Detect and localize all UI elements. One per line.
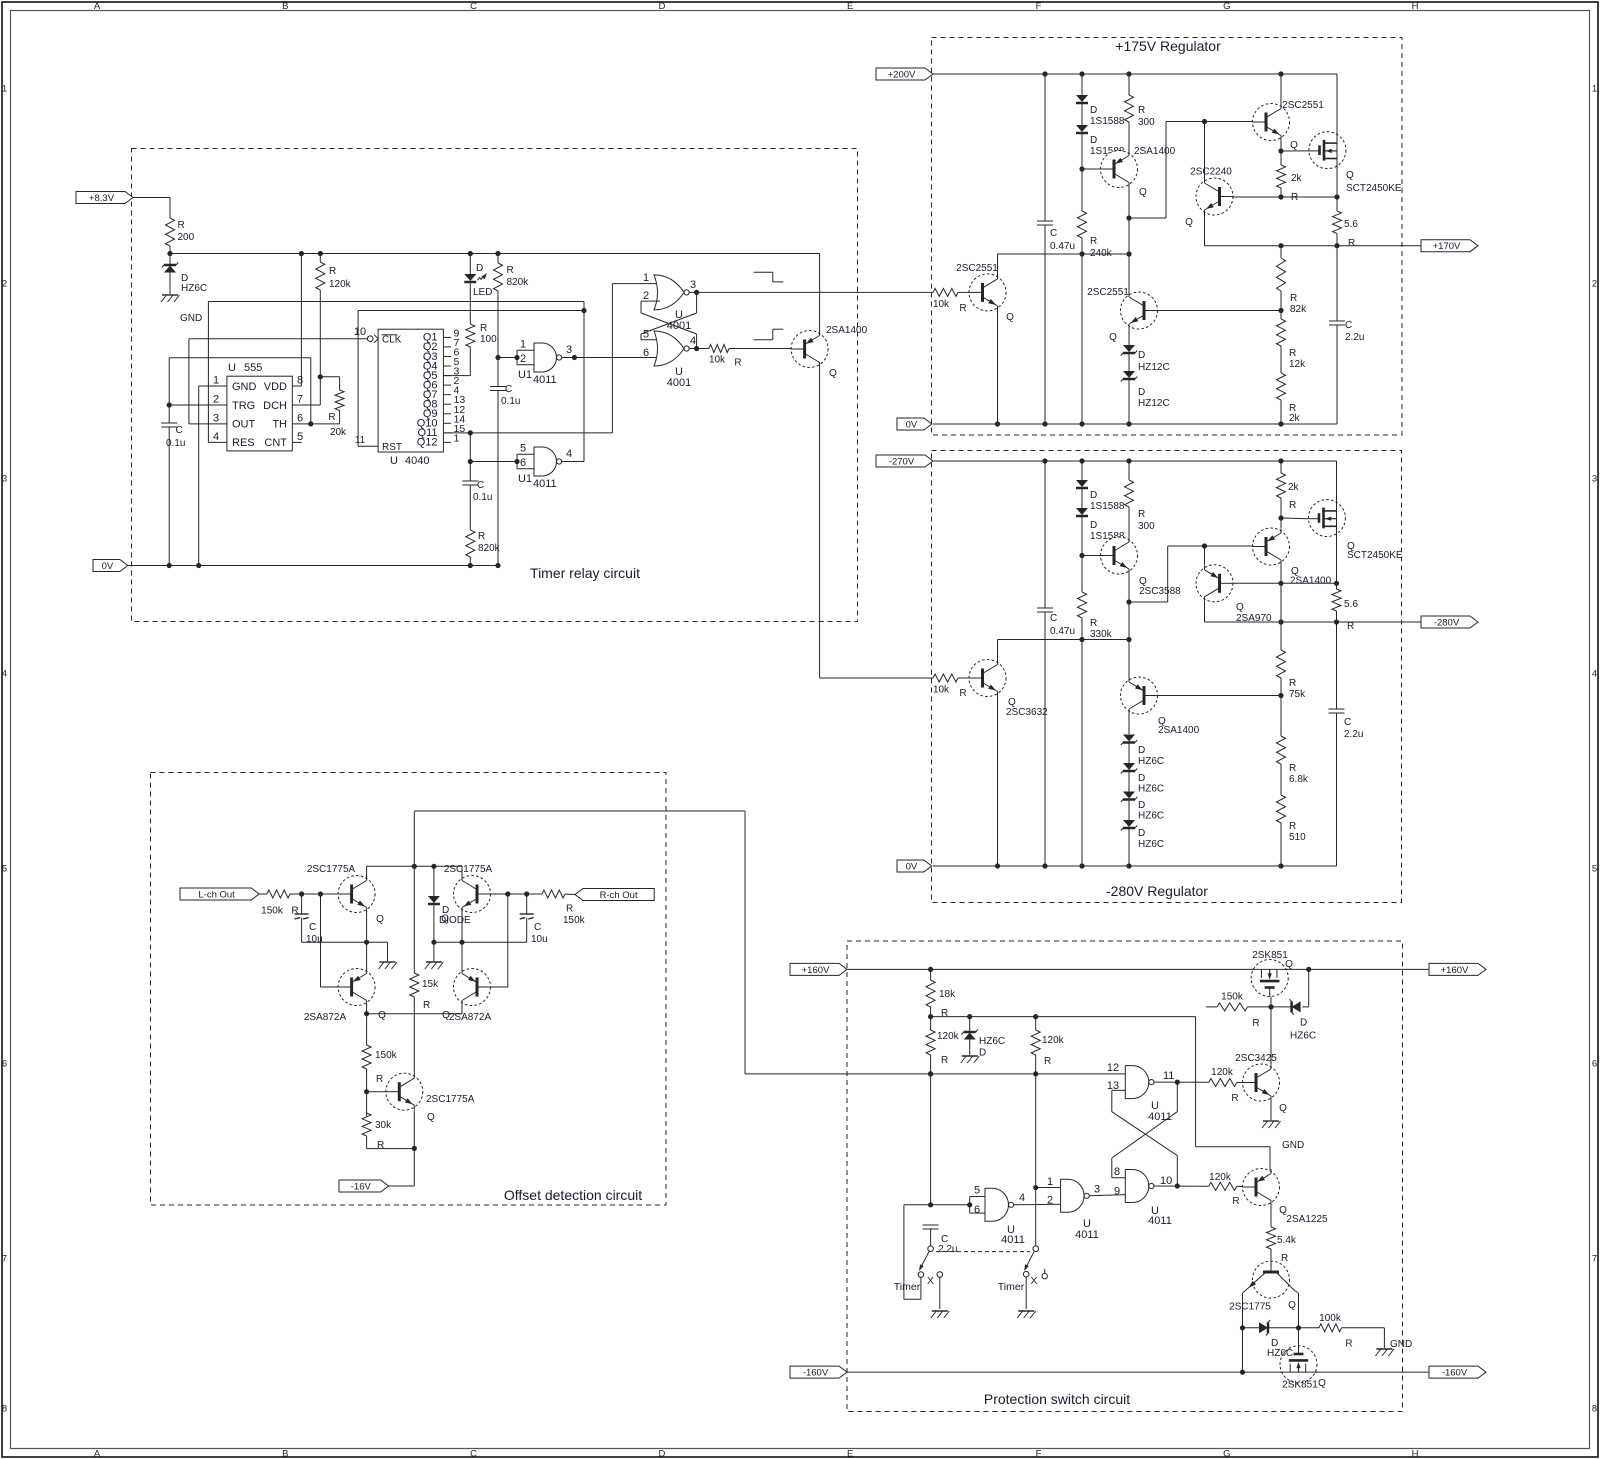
capacitor C 0.1u timer3 bbox=[462, 480, 492, 503]
grid column label H bottom bbox=[1412, 1449, 1419, 1459]
svg-text:3: 3 bbox=[1592, 474, 1597, 485]
svg-text:3: 3 bbox=[2, 474, 7, 485]
wire top distribution row bbox=[931, 1016, 1196, 1018]
svg-text:1: 1 bbox=[520, 339, 526, 351]
U1 4011 b pin labels bbox=[518, 443, 572, 491]
svg-text:R: R bbox=[1289, 763, 1296, 774]
wire 10k to 2SC3632 base bbox=[958, 677, 970, 679]
node base row y310 bbox=[1278, 308, 1283, 313]
svg-text:2k: 2k bbox=[1289, 413, 1301, 424]
wire NOR-a out crosscouple to NOR-b input5 bbox=[641, 292, 697, 339]
node 0V280 x1281 bbox=[1278, 863, 1283, 868]
svg-text:Q: Q bbox=[1139, 187, 1147, 198]
svg-text:-16V: -16V bbox=[351, 1181, 372, 1192]
U 4040 output Q5 pin 3 bbox=[423, 366, 460, 382]
resistor R 75k bbox=[1277, 622, 1307, 736]
NAND gate U 4011 D bbox=[985, 1188, 1014, 1221]
resistor R 300 -280V bbox=[1125, 461, 1156, 538]
svg-text:5: 5 bbox=[520, 443, 526, 455]
wire gate to mosfet -280V bbox=[1281, 517, 1308, 520]
svg-text:2SC1775A: 2SC1775A bbox=[444, 864, 493, 875]
node x1129 y254 bbox=[1126, 251, 1131, 256]
wire base link left pair bbox=[321, 894, 340, 987]
wire L-ch to R150k bbox=[259, 893, 267, 895]
node -280V x1281 bbox=[1278, 619, 1283, 624]
wire 2SC3588 emitter down bbox=[1128, 573, 1130, 640]
node U1b input bbox=[514, 459, 519, 464]
svg-text:R: R bbox=[1289, 821, 1296, 832]
node out11 bbox=[1175, 1080, 1180, 1085]
switch timer 2 blade bbox=[1024, 1251, 1034, 1271]
svg-text:HZ6C: HZ6C bbox=[1138, 784, 1164, 795]
svg-text:R: R bbox=[959, 688, 966, 699]
svg-text:D: D bbox=[979, 1048, 986, 1059]
node 0V175 x1082 bbox=[1079, 421, 1084, 426]
node 2SC3588 base bbox=[1079, 553, 1084, 558]
wire U1b input from Q11 chain bbox=[470, 461, 517, 463]
svg-text:HZ6C: HZ6C bbox=[181, 283, 207, 294]
wire 2SC3632 emitter bbox=[997, 696, 999, 866]
zener D HZ12C a bbox=[1121, 345, 1170, 373]
wire 2SC1775A-R emitter bbox=[461, 911, 463, 970]
net flag -280V bbox=[1421, 616, 1478, 628]
svg-text:GND: GND bbox=[180, 313, 202, 324]
resistor R 15k bbox=[410, 866, 439, 1074]
wire y218 to 2SC2551 base net bbox=[1129, 122, 1254, 219]
svg-text:8: 8 bbox=[297, 375, 303, 387]
svg-text:Timer relay circuit: Timer relay circuit bbox=[530, 565, 640, 581]
svg-text:D: D bbox=[658, 1, 665, 12]
svg-text:R: R bbox=[959, 303, 966, 314]
node 0V280 x997.5 bbox=[995, 863, 1000, 868]
node 0V280 x1129 bbox=[1126, 863, 1131, 868]
svg-text:TRG: TRG bbox=[232, 400, 255, 412]
svg-text:6.8k: 6.8k bbox=[1289, 774, 1309, 785]
mosfet Q SCT2450KE +175V bbox=[1309, 132, 1402, 194]
svg-text:5.6: 5.6 bbox=[1344, 599, 1358, 610]
transistor Q 2SA872A right bbox=[442, 969, 491, 1024]
wire 2SC2551mid emitter to zeners bbox=[1128, 328, 1130, 345]
svg-text:-280V Regulator: -280V Regulator bbox=[1106, 883, 1208, 899]
svg-text:820k: 820k bbox=[478, 543, 501, 554]
svg-text:HZ6C: HZ6C bbox=[1267, 1348, 1293, 1359]
node pin1 bbox=[1033, 1185, 1038, 1190]
wire 555 CNT pin5 stub bbox=[292, 441, 302, 443]
grid column label E bottom bbox=[847, 1449, 853, 1459]
wire -160V line bbox=[847, 1371, 1429, 1373]
node 0V175 x1281 bbox=[1278, 421, 1283, 426]
U 4040 output Q8 pin 13 bbox=[423, 394, 466, 410]
svg-text:1: 1 bbox=[1047, 1176, 1053, 1188]
svg-text:C: C bbox=[1050, 613, 1057, 624]
svg-text:6: 6 bbox=[974, 1204, 980, 1216]
svg-text:2SC1775A: 2SC1775A bbox=[307, 864, 356, 875]
svg-text:Q: Q bbox=[829, 368, 837, 379]
resistor R 20k bbox=[328, 390, 347, 438]
wire 2SA1400l base to divider bbox=[1151, 695, 1282, 697]
node 0V x169 bbox=[167, 563, 172, 568]
svg-text:820k: 820k bbox=[507, 277, 530, 288]
grid column label B top bbox=[282, 1, 288, 12]
svg-text:2SC2551: 2SC2551 bbox=[1087, 287, 1129, 298]
wire 2SC1775A-bot emitter bbox=[413, 1110, 415, 1186]
node y574 x1335 bbox=[1334, 581, 1339, 586]
transistor Q 2SA1400 +175V bbox=[1101, 146, 1176, 198]
wire NAND-D out to NAND-C pin2 bbox=[1014, 1203, 1061, 1206]
diode D 1S1588 d bbox=[1076, 490, 1125, 556]
IC U 555 body bbox=[227, 376, 292, 451]
svg-text:10: 10 bbox=[1160, 1175, 1172, 1187]
IC U 4040 body bbox=[378, 329, 443, 452]
resistor R 2k gate bbox=[1277, 165, 1303, 203]
svg-text:1: 1 bbox=[213, 375, 219, 387]
svg-text:555: 555 bbox=[244, 362, 262, 374]
svg-text:VDD: VDD bbox=[264, 381, 287, 393]
node y1327 x1298 bbox=[1296, 1325, 1301, 1330]
node base row y695 bbox=[1278, 693, 1283, 698]
wire 100k to ground bbox=[1342, 1328, 1385, 1348]
resistor R 120k base a bbox=[1209, 1067, 1239, 1104]
node x1082 y254 bbox=[1079, 251, 1084, 256]
grid column label A top bbox=[94, 1, 101, 12]
svg-text:120k: 120k bbox=[1209, 1172, 1232, 1183]
U 4011 C labels bbox=[1047, 1176, 1100, 1241]
grid column label B bottom bbox=[282, 1449, 288, 1459]
transistor Q 2SA872A left bbox=[304, 969, 386, 1024]
wire R20k bottom to TH bbox=[311, 411, 340, 424]
node input x969 bbox=[967, 1202, 972, 1207]
wire 2SA1400 collector to rail bbox=[819, 254, 821, 332]
grid row label 6 right bbox=[1592, 1059, 1597, 1070]
resistor R 2k bottom bbox=[1277, 373, 1301, 424]
wire cap bottom to ground L bbox=[302, 942, 388, 961]
zener D HZ6C chain 4 bbox=[1121, 820, 1164, 866]
svg-text:Q: Q bbox=[1288, 1300, 1296, 1311]
labels D HZ6C bottom zener bbox=[1267, 1338, 1293, 1359]
svg-text:2.2u: 2.2u bbox=[1344, 729, 1363, 740]
net flag +200V bbox=[876, 68, 933, 80]
svg-text:2SC1775: 2SC1775 bbox=[1229, 1302, 1271, 1313]
U 4011 D input bracket bbox=[970, 1197, 985, 1214]
svg-text:1S1588: 1S1588 bbox=[1090, 116, 1125, 127]
node RES-RST junction bbox=[581, 308, 586, 313]
svg-text:0.1u: 0.1u bbox=[473, 492, 492, 503]
U 4040 CLK pin 10 bbox=[354, 326, 402, 346]
ground switch1 bbox=[931, 1311, 950, 1318]
svg-text:R: R bbox=[566, 904, 573, 915]
NAND gate U 4011 A bbox=[1125, 1066, 1154, 1099]
net flag +8.3V bbox=[76, 192, 133, 204]
capacitor C 0.47u -280V bbox=[1037, 461, 1075, 866]
resistor R 120k right drop bbox=[1031, 1017, 1064, 1246]
svg-text:18k: 18k bbox=[939, 989, 956, 1000]
node y574 x1281 bbox=[1278, 581, 1283, 586]
capacitor C 2.2u -280V bbox=[1329, 622, 1364, 866]
grid row label 1 right bbox=[1592, 84, 1597, 95]
svg-text:H: H bbox=[1412, 1449, 1419, 1459]
svg-text:R: R bbox=[178, 220, 185, 231]
svg-text:HZ12C: HZ12C bbox=[1138, 398, 1170, 409]
grid column label H top bbox=[1412, 1, 1419, 12]
wire +8.3V to R200 bbox=[133, 198, 170, 219]
U 4011 D labels bbox=[974, 1185, 1025, 1247]
svg-text:240k: 240k bbox=[1090, 248, 1113, 259]
svg-text:D: D bbox=[1090, 520, 1097, 531]
resistor R 100 bbox=[466, 323, 497, 347]
svg-text:C: C bbox=[309, 922, 316, 933]
net flag -16V bbox=[339, 1180, 389, 1192]
resistor R 150k protection bbox=[1206, 992, 1260, 1029]
ground below D HZ6C bbox=[161, 295, 180, 302]
node NAND1 input x498 bbox=[495, 355, 500, 360]
switch timer 1 contacts bbox=[918, 1272, 942, 1278]
label GND 100k bbox=[1390, 1339, 1412, 1350]
svg-text:R: R bbox=[376, 1074, 383, 1085]
NAND gate U1 4011 b bbox=[534, 447, 562, 476]
svg-text:150k: 150k bbox=[563, 915, 586, 926]
transistor Q 2SC3588 bbox=[1101, 537, 1182, 597]
U 555 pin 5 CNT bbox=[264, 431, 303, 449]
wire -280V output line bbox=[1205, 621, 1422, 623]
grid row label 5 right bbox=[1592, 864, 1597, 875]
crosscouple out11 to pin8 bbox=[1112, 1082, 1178, 1178]
svg-text:8: 8 bbox=[2, 1404, 7, 1415]
svg-text:10k: 10k bbox=[933, 685, 950, 696]
wire 4040 RST to RES net bbox=[358, 311, 584, 447]
node y942 x433 bbox=[431, 940, 436, 945]
transistor Q 2SC1775A right bbox=[441, 864, 492, 925]
NAND gate U 4011 B bbox=[1125, 1170, 1154, 1203]
offset detection dashed box bbox=[151, 773, 667, 1206]
wire 555 DCH pin7 bbox=[292, 404, 320, 406]
svg-text:R: R bbox=[1044, 1056, 1051, 1067]
grid column label C top bbox=[470, 1, 477, 12]
wire switch1 loop to input row bbox=[904, 1205, 921, 1300]
wire cap bottom right bbox=[434, 941, 527, 943]
node y894 x301 bbox=[299, 891, 304, 896]
svg-text:C: C bbox=[470, 1449, 477, 1459]
svg-text:-160V: -160V bbox=[1442, 1368, 1468, 1379]
svg-text:R: R bbox=[478, 531, 485, 542]
grid column label C bottom bbox=[470, 1449, 477, 1459]
switch timer 2 pivot bbox=[1033, 1246, 1039, 1252]
svg-text:2: 2 bbox=[520, 353, 526, 365]
svg-text:2: 2 bbox=[643, 290, 649, 302]
resistor R 10k timer bbox=[709, 345, 742, 369]
wire TRG bbox=[169, 404, 227, 406]
wire mosfet source bbox=[1336, 167, 1338, 197]
svg-text:5.4k: 5.4k bbox=[1277, 1235, 1297, 1246]
wire 555 TH pin6 bbox=[292, 423, 311, 425]
svg-text:3: 3 bbox=[690, 279, 696, 291]
node rail x320 bbox=[318, 251, 323, 256]
svg-text:Q: Q bbox=[1109, 332, 1117, 343]
node input x930 bbox=[928, 1202, 933, 1207]
wire 2SC3425 emitter to ground bbox=[1270, 1101, 1272, 1120]
resistor R 18k bbox=[926, 969, 956, 1019]
U 555 pin 8 VDD bbox=[264, 375, 303, 393]
ground 2SC3425 bbox=[1262, 1121, 1281, 1128]
svg-text:R: R bbox=[1345, 1339, 1352, 1350]
wire mosfet2 source bbox=[1336, 536, 1338, 583]
zener D HZ6C protection top bbox=[1271, 969, 1316, 1041]
svg-text:4: 4 bbox=[566, 448, 572, 460]
svg-text:R: R bbox=[377, 1140, 384, 1151]
transistor Q 2SA1225 bbox=[1243, 1169, 1329, 1226]
resistor R 510 bbox=[1277, 795, 1307, 866]
svg-text:5: 5 bbox=[643, 329, 649, 341]
svg-text:R: R bbox=[1348, 238, 1355, 249]
svg-text:Q12: Q12 bbox=[417, 437, 438, 449]
svg-text:Timer: Timer bbox=[998, 1281, 1025, 1293]
wire 2SC3632 collector bbox=[997, 640, 999, 661]
wire 2SK851b gate up bbox=[1298, 1328, 1300, 1347]
svg-text:2SC3632: 2SC3632 bbox=[1006, 707, 1048, 718]
wire 2SA872A-R emitter down bbox=[461, 1004, 463, 1014]
grid column label D top bbox=[658, 1, 665, 12]
node rail200 x1082 bbox=[1079, 71, 1084, 76]
net flag -270V bbox=[876, 455, 933, 467]
wire NAND-A out to 120k bbox=[1154, 1081, 1209, 1083]
svg-text:Q: Q bbox=[376, 914, 384, 925]
svg-text:U: U bbox=[390, 455, 398, 467]
U 555 pin 1 GND bbox=[213, 375, 257, 393]
U 4040 output Q12 pin 1 bbox=[417, 432, 460, 448]
node x930 y1016 bbox=[928, 1014, 933, 1019]
diode D 1S1588 a bbox=[1076, 74, 1125, 127]
svg-text:2k: 2k bbox=[1288, 482, 1300, 493]
svg-text:2SK851: 2SK851 bbox=[1282, 1380, 1318, 1391]
svg-text:D: D bbox=[1138, 800, 1145, 811]
U 4040 output Q3 pin 6 bbox=[423, 347, 460, 363]
wire 10k to 2SC2551 base bbox=[958, 291, 970, 293]
wire y639 to left bbox=[998, 639, 1130, 641]
node y1327 x1242 bbox=[1240, 1325, 1245, 1330]
wire y1327 row to 100k bbox=[1299, 1327, 1320, 1329]
svg-text:RES: RES bbox=[232, 437, 255, 449]
wire +170V output line bbox=[1205, 245, 1422, 247]
svg-text:C: C bbox=[505, 384, 512, 395]
wire NOR-a input2 crosscouple bbox=[641, 301, 697, 348]
U 4040 output Q9 pin 12 bbox=[423, 404, 466, 420]
svg-text:12: 12 bbox=[1107, 1062, 1119, 1074]
grid row label 7 left bbox=[2, 1254, 7, 1265]
resistor R 330k bbox=[1078, 556, 1113, 867]
wire NAND-B out bbox=[1154, 1185, 1209, 1187]
wire +160V line bbox=[847, 968, 1429, 970]
transistor Q 2SC1775A left bbox=[307, 864, 384, 925]
svg-text:B: B bbox=[282, 1449, 288, 1459]
capacitor C 2.2u protection bbox=[923, 1225, 958, 1255]
svg-text:4011: 4011 bbox=[1075, 1229, 1099, 1241]
ground switch2 bbox=[1017, 1311, 1035, 1318]
svg-text:R: R bbox=[507, 265, 514, 276]
wire y254 to left bbox=[998, 253, 1130, 255]
wire 2SA1400 emitter down to -280V regulator bbox=[820, 366, 933, 678]
node DCH junction bbox=[318, 374, 323, 379]
svg-text:2SA1400: 2SA1400 bbox=[1134, 146, 1176, 157]
resistor R 5.6 +175V bbox=[1333, 197, 1359, 249]
svg-text:SCT2450KE: SCT2450KE bbox=[1346, 183, 1402, 194]
svg-text:100k: 100k bbox=[1319, 1313, 1342, 1324]
svg-text:R: R bbox=[1090, 618, 1097, 629]
svg-text:GND: GND bbox=[1390, 1339, 1412, 1350]
wire gate 2k to mosfet bbox=[1281, 150, 1309, 152]
transistor Q 2SC2551 left bbox=[956, 263, 1014, 323]
svg-text:8: 8 bbox=[1114, 1166, 1120, 1178]
NOR gate U 4001 a bbox=[654, 275, 689, 310]
node x470 y461 bbox=[468, 459, 473, 464]
svg-text:+200V: +200V bbox=[888, 69, 916, 80]
U 4040 RST pin 11 bbox=[355, 435, 402, 453]
resistor R 120k base b bbox=[1209, 1172, 1240, 1207]
svg-text:D: D bbox=[1138, 350, 1145, 361]
net flag -160V left bbox=[790, 1366, 847, 1378]
node -280V x1335 bbox=[1334, 619, 1339, 624]
node rail junction at R200 bbox=[167, 251, 172, 256]
wire 2SC2551mid base to divider bbox=[1151, 310, 1282, 312]
wire 2SC1775A-R collector bbox=[461, 866, 463, 877]
ground offset middle bbox=[425, 962, 444, 969]
svg-text:R: R bbox=[291, 906, 298, 917]
svg-text:0V: 0V bbox=[906, 861, 918, 872]
svg-text:U1: U1 bbox=[518, 473, 532, 485]
svg-text:2SA1400: 2SA1400 bbox=[1290, 576, 1332, 587]
grid row label 6 left bbox=[2, 1059, 7, 1070]
svg-text:A: A bbox=[94, 1449, 101, 1459]
node rail200 x1045 bbox=[1042, 71, 1047, 76]
timer relay circuit dashed box bbox=[132, 149, 858, 622]
node rail200 x1129 bbox=[1126, 71, 1131, 76]
svg-text:R: R bbox=[328, 412, 335, 423]
svg-text:RST: RST bbox=[382, 442, 402, 453]
resistor R 5.6 -280V bbox=[1332, 583, 1358, 632]
transistor Q 2SA1400 timer bbox=[791, 325, 867, 379]
node rail x470 bbox=[468, 251, 473, 256]
grid column label G bottom bbox=[1223, 1449, 1230, 1459]
node y894 x320 bbox=[318, 891, 323, 896]
svg-text:+160V: +160V bbox=[1441, 965, 1469, 976]
svg-text:120k: 120k bbox=[937, 1031, 960, 1042]
transistor Q 2SC2240 bbox=[1185, 167, 1233, 229]
svg-text:B: B bbox=[282, 1, 288, 12]
capacitor C 0.47u +175V bbox=[1037, 74, 1075, 424]
svg-text:1: 1 bbox=[454, 432, 460, 444]
node y197 x1337 bbox=[1334, 194, 1339, 199]
ground zener mid bbox=[961, 1056, 980, 1063]
net flag 0V -280V bbox=[897, 860, 932, 872]
wire 555 VDD pin8 to rail bbox=[292, 254, 301, 387]
grid row label 4 right bbox=[1592, 669, 1597, 680]
node NOR-b out bbox=[694, 346, 699, 351]
node y866 x433 bbox=[431, 864, 436, 869]
wire 2SA1400l collector bbox=[1128, 640, 1130, 679]
svg-text:6: 6 bbox=[1592, 1059, 1597, 1070]
svg-text:R: R bbox=[1090, 236, 1097, 247]
U 4040 reference label bbox=[390, 455, 429, 467]
node U1a out x574 bbox=[572, 355, 577, 360]
switch 2 open terminal bbox=[1042, 1269, 1047, 1279]
grid row label 7 right bbox=[1592, 1254, 1597, 1265]
U 4040 output Q7 pin 4 bbox=[423, 385, 460, 401]
wire 2SC2551left collector bbox=[997, 254, 999, 275]
label GND 2SC3425 bbox=[1282, 1140, 1304, 1151]
svg-text:4011: 4011 bbox=[533, 478, 557, 490]
wire NOR-a output bbox=[689, 291, 933, 293]
U 555 reference label bbox=[228, 362, 262, 374]
falling step symbol bbox=[754, 272, 784, 282]
svg-text:6: 6 bbox=[520, 457, 526, 469]
